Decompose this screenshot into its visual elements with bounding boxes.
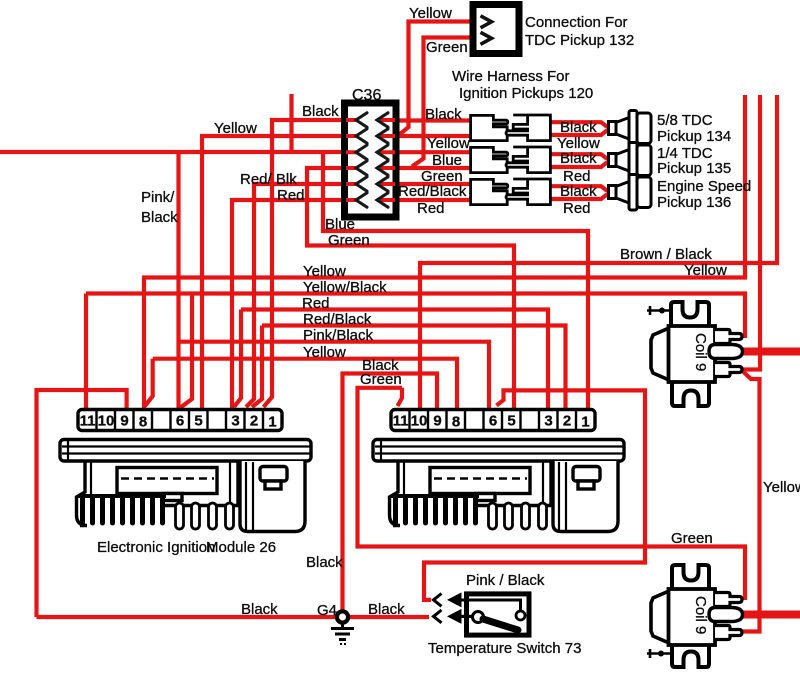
svg-text:Yellow: Yellow <box>427 135 470 152</box>
coil1 terminal 1 <box>715 330 742 344</box>
svg-text:Blue: Blue <box>432 152 462 169</box>
wire thick coil1 center <box>742 348 800 356</box>
svg-text:Black: Black <box>368 601 405 618</box>
wire pickup3 lower red <box>551 194 608 199</box>
connector half pair pickup 136 <box>471 179 551 205</box>
sensor 5/8 TDC pickup 134 <box>609 111 652 147</box>
wire black H7 to ground G4 <box>343 374 438 618</box>
svg-text:10: 10 <box>98 413 115 430</box>
wire C36 row6 left <box>232 200 358 408</box>
wire brown/black vertical via pin10 <box>420 95 777 408</box>
coil2 left cap <box>651 591 669 643</box>
svg-text:Yellow: Yellow <box>763 479 800 496</box>
connector box for TDC pickup 132 <box>473 5 519 54</box>
svg-text:Connection For: Connection For <box>525 14 628 31</box>
connector chevrons pink/black wire <box>434 594 442 623</box>
wire black to G4 node <box>37 615 430 619</box>
temp switch inner wire <box>460 600 521 611</box>
svg-text:3: 3 <box>231 413 239 430</box>
wire bundle pink/black H5 <box>179 342 490 408</box>
coil1 bottom mounting tab <box>672 381 709 406</box>
connector arrow black <box>447 609 462 624</box>
wire coil1 lower terminal jog down <box>742 371 760 632</box>
wire pickup1 lower yellow <box>551 130 608 135</box>
module dashed line <box>121 477 214 480</box>
wire C36 row4 left (green) <box>307 168 514 408</box>
temp switch contact left <box>473 612 484 623</box>
connector C36 box <box>345 103 397 217</box>
coil1 body <box>669 326 716 382</box>
svg-text:Red: Red <box>302 295 330 312</box>
wire pink/black vertical from row3 to module1 pin6 <box>176 152 180 408</box>
svg-text:C36: C36 <box>352 87 381 104</box>
wire yellow top to TDC132 <box>400 22 474 135</box>
svg-text:Green: Green <box>328 232 370 249</box>
svg-text:5/8 TDC: 5/8 TDC <box>657 112 713 129</box>
svg-text:1: 1 <box>268 414 276 431</box>
sensor engine speed pickup 136 <box>609 175 652 211</box>
svg-text:Pickup 135: Pickup 135 <box>657 160 731 177</box>
wire blue from C36 row3 to module2 pin1 <box>323 152 588 408</box>
wire C36 row1 left (black) <box>264 120 359 407</box>
coil2 terminal 3 <box>715 626 742 640</box>
svg-text:2: 2 <box>563 413 571 430</box>
wire green H8 to coil2 <box>358 388 746 600</box>
coil2 terminal 2 oval <box>709 608 743 622</box>
svg-text:Blue: Blue <box>325 216 355 233</box>
svg-text:Pickup 134: Pickup 134 <box>657 128 731 145</box>
ground symbol <box>331 621 354 640</box>
svg-text:11: 11 <box>80 413 96 430</box>
svg-text:Pickup 136: Pickup 136 <box>657 194 731 211</box>
module2 body <box>373 440 624 532</box>
svg-text:Black: Black <box>425 106 462 123</box>
svg-text:Wire Harness For: Wire Harness For <box>452 68 570 85</box>
labels pickup row wires <box>398 106 751 217</box>
wire C36 row5 left <box>246 184 358 407</box>
svg-text:Green: Green <box>360 371 402 388</box>
svg-text:Engine Speed: Engine Speed <box>657 178 751 195</box>
svg-text:6: 6 <box>176 413 184 430</box>
connector half pair pickup 134 <box>471 115 551 141</box>
wires inside C36 to chevron tips <box>346 120 395 200</box>
wire pickup3 upper black <box>551 186 608 191</box>
connector arrow pink/black <box>447 592 462 607</box>
svg-text:Pink/Black: Pink/Black <box>303 327 374 344</box>
module comb teeth <box>78 494 166 526</box>
coil2 bottom mounting tab <box>672 644 709 667</box>
svg-text:G4: G4 <box>317 602 337 619</box>
wire C36 row6 right to pickup3 lower <box>379 198 471 202</box>
svg-text:9: 9 <box>433 413 441 430</box>
coil1 left cap <box>651 328 669 380</box>
svg-text:8: 8 <box>139 414 147 431</box>
module2 hanging legs <box>489 503 547 529</box>
svg-text:Brown / Black: Brown / Black <box>620 246 712 263</box>
module1 body <box>60 440 311 532</box>
module2 pin strip <box>391 410 595 431</box>
temp switch contact right <box>516 611 525 620</box>
chevron pins TDC132 <box>481 16 492 45</box>
svg-text:Black: Black <box>560 150 597 167</box>
svg-text:Module 26: Module 26 <box>206 539 276 556</box>
wire C36 row1 right to pickup1 upper <box>379 118 471 122</box>
svg-text:5: 5 <box>507 413 515 430</box>
wire bundle red H3 <box>234 310 548 409</box>
wire bundle red/black H4 <box>252 326 566 409</box>
svg-text:Black: Black <box>560 183 597 200</box>
svg-text:8: 8 <box>452 414 460 431</box>
wire vertical right coil feed <box>741 95 760 370</box>
svg-text:Black: Black <box>141 209 178 226</box>
wire green top to TDC132 <box>412 38 473 167</box>
wire pickup1 upper black <box>551 122 608 127</box>
wire thick coil2 center <box>742 611 800 619</box>
svg-text:Green: Green <box>671 530 713 547</box>
module2 dashed line <box>434 477 527 480</box>
svg-text:Red: Red <box>417 200 445 217</box>
connector half pair pickup 135 <box>471 147 551 173</box>
coil1 terminal 3 <box>715 363 742 377</box>
wire branch yellow/black to module1 pin6 <box>181 294 193 408</box>
svg-text:Yellow: Yellow <box>214 120 257 137</box>
svg-text:Black: Black <box>302 103 339 120</box>
connector C36 chevron pins <box>356 113 388 207</box>
coil2 terminal 1 <box>715 593 742 607</box>
svg-text:Red/ Blk: Red/ Blk <box>240 171 297 188</box>
svg-text:Red/Black: Red/Black <box>303 311 372 328</box>
temp switch lever <box>483 619 518 630</box>
svg-text:Black: Black <box>306 554 343 571</box>
coil2 body <box>669 589 716 645</box>
svg-text:Coil 9: Coil 9 <box>692 333 709 371</box>
svg-text:Pink/: Pink/ <box>141 189 175 206</box>
coil2 ground tick <box>647 649 671 658</box>
coil1 ground tick <box>647 306 670 315</box>
svg-text:Red/Black: Red/Black <box>398 183 467 200</box>
wire pin6 module2 to temp switch pink/black <box>424 390 645 600</box>
ground node G4 <box>337 611 348 622</box>
svg-text:9: 9 <box>120 413 128 430</box>
wire bundle yellow/black H2 <box>86 294 745 409</box>
sensor 1/4 TDC pickup 135 <box>609 143 652 179</box>
wire pickup2 lower red <box>551 162 608 167</box>
coil1 top mounting tab <box>671 302 709 327</box>
svg-text:Electronic Ignition: Electronic Ignition <box>97 539 215 556</box>
svg-text:Coil 9: Coil 9 <box>692 596 709 634</box>
wire C36 row3 left from edge <box>0 150 358 154</box>
coil1 terminal 2 oval <box>709 345 743 359</box>
svg-text:1: 1 <box>581 414 589 431</box>
wire pickup2 upper black <box>551 154 608 159</box>
svg-text:2: 2 <box>250 413 258 430</box>
module1 pin strip <box>78 410 282 431</box>
svg-text:Pink / Black: Pink / Black <box>466 572 545 589</box>
coil2 top mounting tab <box>672 565 709 590</box>
svg-text:5: 5 <box>194 413 202 430</box>
wire C36 row4 right to pickup2 lower <box>379 166 471 170</box>
svg-text:Yellow: Yellow <box>409 5 452 22</box>
svg-text:6: 6 <box>489 413 497 430</box>
svg-text:Yellow: Yellow <box>684 262 727 279</box>
svg-text:Yellow: Yellow <box>303 344 346 361</box>
svg-text:Red: Red <box>277 187 305 204</box>
wire C36 row3 right to pickup2 upper <box>379 150 471 154</box>
svg-text:TDC Pickup 132: TDC Pickup 132 <box>525 32 634 49</box>
svg-text:Green: Green <box>426 39 468 56</box>
temp switch box <box>467 594 530 635</box>
wire C36 row2 right to pickup1 lower <box>379 134 471 138</box>
wire ground loop module1 pin9 <box>37 390 127 617</box>
svg-text:Temperature Switch 73: Temperature Switch 73 <box>428 640 581 657</box>
wire bundle yellow H1 <box>144 95 745 408</box>
wire bundle yellow2 H6 <box>145 359 457 408</box>
wire C36 row5 right to pickup3 upper <box>379 182 471 186</box>
svg-text:Red: Red <box>563 200 591 217</box>
module hanging legs <box>176 503 234 529</box>
wire C36 row2 left (yellow) <box>202 136 358 408</box>
svg-text:Yellow/Black: Yellow/Black <box>303 279 387 296</box>
svg-text:3: 3 <box>544 413 552 430</box>
svg-text:Black: Black <box>560 119 597 136</box>
module2 comb teeth <box>391 494 479 526</box>
svg-text:11: 11 <box>393 413 409 430</box>
svg-text:Black: Black <box>241 601 278 618</box>
wire black stub above C36 row1 <box>289 94 293 152</box>
svg-text:10: 10 <box>411 413 428 430</box>
svg-text:Ignition Pickups 120: Ignition Pickups 120 <box>459 85 593 102</box>
svg-text:Yellow: Yellow <box>303 263 346 280</box>
